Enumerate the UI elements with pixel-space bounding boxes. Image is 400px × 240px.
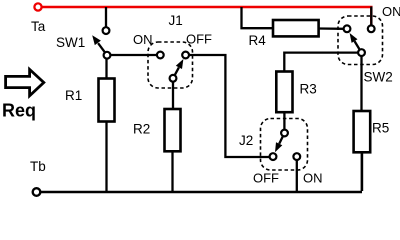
svg-text:Ta: Ta: [31, 19, 46, 34]
jumper J1 pin common: [170, 75, 177, 82]
svg-text:R1: R1: [65, 88, 82, 103]
switch SW2 pin common: [358, 49, 365, 56]
svg-text:R4: R4: [249, 33, 267, 48]
arrow Req (block arrow): [6, 69, 44, 95]
wire SW1 to R1: [105, 59, 107, 79]
wire J1 common to R2: [172, 82, 174, 109]
jumper J1 pin ON: [157, 52, 164, 59]
svg-text:R2: R2: [133, 122, 150, 137]
jumper J1 lever (points to OFF): [173, 59, 183, 78]
wire J2 ON to bottom rail: [296, 160, 298, 191]
svg-text:SW2: SW2: [364, 70, 393, 85]
wire J1 OFF to J2 OFF: [189, 55, 269, 157]
wire SW2 common to R5: [360, 56, 362, 111]
resistor R2: [165, 109, 181, 151]
wire bottom net (Tb rail): [41, 191, 362, 194]
wire SW1 to J1 ON: [110, 54, 156, 56]
svg-text:R3: R3: [300, 82, 317, 97]
wire R3 to J2 common: [283, 112, 285, 129]
jumper J2 (dashed enclosure): [261, 119, 308, 171]
resistor R1: [99, 79, 115, 122]
svg-text:SW1: SW1: [56, 35, 85, 50]
svg-text:Req: Req: [2, 101, 36, 121]
resistor R4: [273, 20, 319, 36]
svg-text:ON: ON: [133, 32, 153, 47]
svg-text:ON: ON: [303, 171, 323, 186]
terminal Tb: [33, 188, 41, 196]
svg-text:OFF: OFF: [253, 171, 279, 186]
jumper J2 lever (points to OFF): [275, 133, 285, 152]
switch SW2 (dashed enclosure): [338, 16, 383, 65]
wire red rail to R4: [242, 7, 274, 28]
resistor R3: [276, 72, 292, 113]
wire SW2 ON drop (black): [370, 7, 372, 26]
wire red top net (Ta rail): [42, 7, 372, 25]
wire R3 to SW2 common: [284, 53, 358, 72]
svg-text:J1: J1: [169, 13, 183, 28]
terminal Ta: [34, 3, 41, 10]
wire R2 to bottom rail: [171, 151, 173, 191]
wire red rail to SW1: [105, 7, 107, 28]
jumper J2 pin OFF: [270, 153, 277, 160]
svg-text:R5: R5: [372, 121, 389, 136]
wire R1 to bottom rail: [105, 122, 107, 192]
svg-text:OFF: OFF: [186, 32, 212, 47]
svg-text:ON: ON: [382, 4, 400, 19]
jumper J1 pin OFF: [182, 52, 189, 59]
wire R4 to SW2: [319, 27, 344, 30]
resistor R5: [354, 111, 371, 152]
switch SW1: [92, 27, 110, 58]
wire R5 to bottom rail: [361, 152, 364, 191]
jumper J1 (dashed enclosure): [148, 42, 193, 88]
switch SW2 pin left: [344, 25, 351, 32]
svg-text:J2: J2: [239, 133, 253, 148]
svg-text:Tb: Tb: [30, 159, 46, 174]
jumper J2 pin common: [281, 130, 288, 137]
jumper J2 pin ON: [293, 153, 300, 160]
switch SW2 lever (points to R4 side): [350, 33, 362, 53]
switch SW2 pin ON: [368, 25, 375, 32]
